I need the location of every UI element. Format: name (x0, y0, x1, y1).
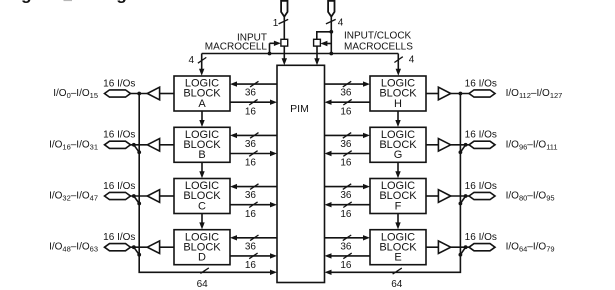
input/clock pin 4 pad symbol (328, 1, 334, 17)
svg-text:H: H (394, 98, 402, 110)
output buffer right G (438, 139, 450, 152)
svg-text:16: 16 (340, 260, 352, 271)
bus width label 36 F (340, 190, 352, 201)
bus width label 36 B (245, 139, 257, 150)
node: left hook junction (268, 52, 272, 56)
svg-text:36: 36 (340, 88, 352, 99)
wire: horizontal macrocell net (202, 53, 399, 55)
wire: buffer to block B (160, 144, 174, 146)
caption fragment (cropped): descender of g in Logic (116, 0, 127, 4)
bus 16: block D to PIM (230, 253, 277, 258)
output buffer left C (147, 190, 159, 203)
wire: buffer to pad right H (451, 93, 469, 95)
logic block D (174, 230, 230, 265)
I/O pad left A (105, 90, 131, 97)
bus width label 36 C (245, 190, 257, 201)
bus width label 16 A (245, 106, 257, 117)
bus width label 4 (left) (188, 55, 194, 66)
caption fragment (cropped): bottom of figure number (64, 0, 73, 1)
bus slash 16 D (249, 253, 257, 259)
wire: block G to buffer (426, 144, 438, 146)
bus slash 36 D (250, 235, 258, 241)
wire: block F to buffer (426, 195, 438, 197)
logic block B (174, 127, 230, 162)
wire: left 64 I/O bus (139, 94, 277, 276)
bus width label 36 D (245, 241, 257, 252)
wire: block B to block C (199, 162, 204, 178)
bus width label 16 E (340, 260, 352, 271)
wire: diagonal tap left D (134, 247, 139, 255)
node: pin4 wire tap (329, 30, 333, 34)
bus width label 64 right (391, 279, 403, 290)
bus width label 16 G (340, 158, 352, 169)
input/clock macrocell square (right) (314, 39, 321, 46)
logic block C (174, 179, 230, 214)
bus slash on left 4-bus (198, 57, 206, 63)
logic block E (370, 230, 426, 265)
wire: elbow from pin4 tap to right macrocell top (317, 32, 332, 40)
wire: block H to buffer (426, 93, 438, 95)
wire: diagonal tap right E (460, 247, 465, 255)
bus 36: PIM to block F (325, 184, 371, 189)
svg-text:MACROCELLS: MACROCELLS (344, 42, 413, 53)
node: bus join right E (459, 253, 463, 257)
bus 16: block A to PIM (230, 100, 277, 105)
node: pad tap right F (464, 194, 468, 198)
wire: block E to buffer (426, 246, 438, 248)
bus slash 16 E (343, 253, 351, 259)
svg-text:36: 36 (340, 139, 352, 150)
output buffer left B (147, 139, 159, 152)
bus width label 36 H (340, 88, 352, 99)
node: bus join left D (137, 253, 141, 257)
label 16 I/Os right G (465, 130, 497, 141)
wire: diagonal tap right F (460, 196, 465, 204)
wire: pin1 to input macrocell (283, 17, 285, 40)
svg-text:PIM: PIM (290, 103, 309, 115)
bus slash on pin1 wire (279, 19, 289, 24)
bus slash 16 H (343, 99, 351, 105)
wire: buffer to pad right E (451, 246, 469, 248)
bus slash 36 E (343, 235, 351, 241)
svg-text:36: 36 (340, 190, 352, 201)
node: bus join left C (137, 202, 141, 206)
svg-text:64: 64 (197, 279, 209, 290)
wire: right 64 I/O bus (325, 94, 461, 276)
bus width label 4 (pin) (338, 17, 344, 28)
I/O label right row F (506, 191, 555, 203)
svg-text:F: F (395, 200, 402, 212)
svg-text:16: 16 (245, 209, 257, 220)
bus slash on right 4-bus (394, 57, 402, 63)
bus slash on pin4 wire (326, 19, 336, 24)
svg-text:4: 4 (338, 17, 344, 28)
wire: pad to buffer left A (131, 93, 148, 95)
bus width label 36 A (245, 88, 257, 99)
wire: buffer to block A (160, 93, 174, 95)
bus 36: PIM to block A (230, 81, 277, 86)
input macrocell square (left) (281, 39, 288, 46)
svg-text:36: 36 (245, 190, 257, 201)
wire: buffer to pad right F (451, 195, 469, 197)
label 16 I/Os right F (465, 181, 497, 192)
wire: buffer to block C (160, 195, 174, 197)
bus slash 16 B (249, 151, 257, 157)
svg-text:16 I/Os: 16 I/Os (103, 181, 135, 192)
wire: block F to block E (395, 214, 400, 230)
bus width label 4 (right) (409, 55, 415, 66)
bus 16: block F to PIM (325, 202, 371, 207)
node: pad tap right E (464, 245, 468, 249)
svg-text:36: 36 (245, 241, 257, 252)
svg-text:B: B (198, 149, 205, 161)
output buffer left A (147, 87, 159, 100)
bus width label 16 C (245, 209, 257, 220)
svg-text:16 I/Os: 16 I/Os (103, 232, 135, 243)
bus 36: PIM to block C (230, 184, 277, 189)
svg-text:1: 1 (273, 18, 279, 29)
svg-text:16 I/Os: 16 I/Os (103, 130, 135, 141)
wire+arrow into left macrocell (270, 41, 281, 54)
logic block H (370, 76, 426, 111)
node: bus join right G (459, 150, 463, 154)
I/O label left row B (49, 139, 98, 151)
wire: diagonal tap left C (134, 196, 139, 204)
label 16 I/Os left C (103, 181, 135, 192)
bus slash 36 C (250, 184, 258, 190)
wire: block C to block D (199, 214, 204, 230)
bus 36: PIM to block H (325, 81, 371, 86)
label 16 I/Os left A (103, 78, 135, 89)
label MACROCELL (205, 42, 268, 53)
svg-text:E: E (394, 252, 401, 264)
bus slash 16 A (249, 99, 257, 105)
bus width label 64 left (197, 279, 209, 290)
label INPUT (237, 32, 267, 43)
I/O label left row A (53, 88, 98, 100)
bus slash 36 F (343, 184, 351, 190)
PIM box (277, 65, 325, 282)
bus slash 36 H (343, 81, 351, 87)
svg-text:16: 16 (340, 158, 352, 169)
svg-text:C: C (198, 200, 206, 212)
output buffer right F (438, 190, 450, 203)
bus 16: block B to PIM (230, 151, 277, 156)
svg-text:D: D (198, 252, 206, 264)
wire: left 4-bus elbow down to block A (199, 54, 204, 76)
node: pin4 wire on horizontal net (329, 52, 333, 56)
node: right I/O bus start (459, 92, 463, 96)
node: left I/O bus start (137, 92, 141, 96)
svg-text:16 I/Os: 16 I/Os (465, 181, 497, 192)
label 16 I/Os right E (465, 232, 497, 243)
svg-text:36: 36 (245, 88, 257, 99)
label MACROCELLS (344, 42, 413, 53)
bus slash 16 F (343, 202, 351, 208)
bus width label 36 E (340, 241, 352, 252)
svg-text:36: 36 (340, 241, 352, 252)
I/O pad right G (469, 141, 495, 148)
wire: buffer to pad right G (451, 144, 469, 146)
bus width label 16 F (340, 209, 352, 220)
svg-text:A: A (198, 98, 206, 110)
svg-text:4: 4 (188, 55, 194, 66)
bus 16: block G to PIM (325, 151, 371, 156)
bus slash 16 G (343, 151, 351, 157)
wire: left macrocell output to PIM (282, 46, 287, 65)
svg-text:g: g (21, 0, 32, 4)
svg-text:4: 4 (409, 55, 415, 66)
bus width label 16 H (340, 106, 352, 117)
node: pad tap right G (464, 143, 468, 147)
bus 16: block C to PIM (230, 202, 277, 207)
svg-text:16 I/Os: 16 I/Os (465, 232, 497, 243)
wire: pad to buffer left C (131, 195, 148, 197)
wire: pad to buffer left B (131, 144, 148, 146)
bus 36: PIM to block B (230, 133, 277, 138)
svg-text:16: 16 (245, 106, 257, 117)
output buffer left D (147, 241, 159, 254)
I/O label left row C (49, 191, 98, 203)
bus slash left 64 (200, 268, 208, 274)
svg-text:g: g (116, 0, 127, 4)
bus 36: PIM to block G (325, 133, 371, 138)
node: bus join right F (459, 202, 463, 206)
I/O label right row H (506, 88, 563, 100)
wire+arrow into right macrocell (320, 41, 331, 46)
I/O label right row G (506, 139, 558, 151)
label 16 I/Os right H (465, 78, 497, 89)
wire: diagonal tap right G (460, 145, 465, 153)
logic block A (174, 76, 230, 111)
output buffer right E (438, 241, 450, 254)
wire: diagonal tap left B (134, 145, 139, 153)
wire: buffer to block D (160, 246, 174, 248)
label 16 I/Os left B (103, 130, 135, 141)
node: bus join left B (137, 150, 141, 154)
I/O label right row E (506, 242, 555, 254)
bus 36: PIM to block D (230, 235, 277, 240)
caption fragment (cropped): descender of g in Figure (21, 0, 32, 4)
I/O label left row D (49, 242, 98, 254)
bus width label 16 B (245, 158, 257, 169)
svg-text:INPUT/CLOCK: INPUT/CLOCK (344, 31, 412, 42)
bus 16: block E to PIM (325, 253, 371, 258)
svg-text:16 I/Os: 16 I/Os (103, 78, 135, 89)
bus 36: PIM to block E (325, 235, 371, 240)
node: pad tap left C (132, 194, 136, 198)
wire: block H to block G (395, 111, 400, 127)
bus slash 16 C (249, 202, 257, 208)
svg-text:16: 16 (340, 106, 352, 117)
output buffer right H (438, 87, 450, 100)
svg-text:16 I/Os: 16 I/Os (465, 78, 497, 89)
input pin 1 pad symbol (281, 1, 287, 17)
svg-text:64: 64 (391, 279, 403, 290)
bus slash 36 A (250, 81, 258, 87)
bus width label 16 D (245, 260, 257, 271)
node: pad tap left D (132, 245, 136, 249)
svg-text:16: 16 (340, 209, 352, 220)
wire: pad to buffer left D (131, 246, 148, 248)
svg-text:36: 36 (245, 139, 257, 150)
svg-text:16: 16 (245, 260, 257, 271)
bus width label 36 G (340, 139, 352, 150)
wire: block A to block B (199, 111, 204, 127)
I/O pad right H (469, 90, 495, 97)
I/O pad left C (105, 192, 131, 199)
bus width label 1 (273, 18, 279, 29)
I/O pad right F (469, 192, 495, 199)
node: pad tap left B (132, 143, 136, 147)
svg-text:16: 16 (245, 158, 257, 169)
bus slash 36 B (250, 133, 258, 139)
svg-text:G: G (394, 149, 403, 161)
svg-text:16 I/Os: 16 I/Os (465, 130, 497, 141)
wire: pin4 down to horizontal net (330, 17, 332, 54)
svg-text:MACROCELL: MACROCELL (205, 42, 268, 53)
bus slash right 64 (393, 268, 402, 274)
PIM label (290, 103, 309, 115)
wire: right 4-bus elbow down to block H (396, 54, 401, 76)
I/O pad left B (105, 141, 131, 148)
label 16 I/Os left D (103, 232, 135, 243)
logic block G (370, 127, 426, 162)
I/O pad left D (105, 244, 131, 251)
wire: block G to block F (395, 162, 400, 178)
I/O pad right E (469, 244, 495, 251)
label INPUT/CLOCK (344, 31, 412, 42)
logic block F (370, 179, 426, 214)
bus slash 36 G (343, 133, 351, 139)
bus 16: block H to PIM (325, 100, 371, 105)
wire: right macrocell output to PIM (314, 46, 319, 65)
